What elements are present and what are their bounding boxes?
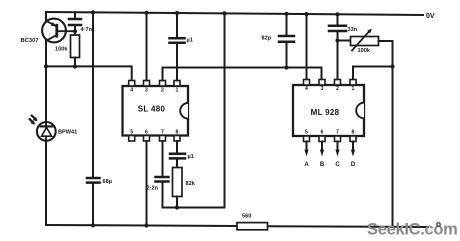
wire pin3 to rail	[146, 13, 148, 81]
svg-text:SeekIC.com: SeekIC.com	[367, 221, 458, 239]
pin numbers SL480 bottom	[130, 130, 178, 136]
svg-text:BPW41: BPW41	[58, 130, 77, 136]
capacitor C5 u1 pin8	[170, 141, 185, 168]
svg-text:0V: 0V	[426, 13, 435, 20]
svg-text:7: 7	[336, 130, 339, 136]
wire pin4 horizontal	[46, 66, 132, 81]
capacitor C2 68u	[87, 12, 100, 225]
svg-text:D: D	[351, 162, 356, 168]
wire bottom rail right	[268, 225, 429, 228]
wire feedback bottom horizontal	[163, 207, 225, 209]
node pin3 rail	[144, 11, 148, 15]
svg-text:1: 1	[176, 88, 179, 94]
output arrow B	[320, 142, 324, 157]
svg-text:7: 7	[161, 130, 164, 136]
capacitor C4 2.2n	[156, 141, 169, 208]
pin stubs SL480 bottom	[129, 136, 180, 142]
wire pot to ML pin1	[353, 67, 393, 80]
node 33n pot junction	[335, 38, 339, 42]
svg-text:68µ: 68µ	[103, 179, 112, 185]
svg-text:3: 3	[321, 86, 324, 92]
node 82p bus	[284, 65, 288, 69]
svg-text:B: B	[320, 162, 325, 168]
capacitor C3 u1 top	[170, 13, 185, 81]
svg-text:4: 4	[305, 86, 308, 92]
node ML pin4 rail	[304, 12, 308, 16]
node 68u top rail	[91, 10, 95, 14]
wire ML pin4 to rail	[306, 14, 308, 79]
pin numbers ML928 bottom	[305, 130, 355, 136]
wire 82k bottom	[176, 197, 178, 208]
node 82k bottom	[175, 205, 179, 209]
capacitor C6 82p	[279, 14, 294, 68]
output arrow D	[351, 142, 355, 157]
pin stubs SL480 top	[129, 81, 180, 87]
node 82p rail	[284, 12, 288, 16]
svg-text:BC307: BC307	[21, 38, 39, 44]
IC U1 SL480	[123, 86, 189, 136]
resistor R4 560	[237, 223, 268, 230]
pin stubs ML928 bottom	[304, 136, 357, 142]
node pot T	[390, 64, 394, 68]
wire pot right down	[379, 41, 393, 67]
watermark superscript mark	[437, 223, 440, 226]
wire left vertical upper	[45, 12, 47, 21]
svg-text:8: 8	[176, 130, 179, 136]
wire right vertical to bottom rail	[392, 67, 394, 227]
svg-text:100k: 100k	[358, 48, 371, 54]
node 33n rail	[335, 12, 339, 16]
pin numbers SL480 top	[130, 88, 178, 94]
wire long vertical feedback	[224, 13, 226, 207]
svg-text:4: 4	[130, 88, 133, 94]
svg-text:4·7n: 4·7n	[81, 27, 93, 33]
wire pin6 to bottom rail	[146, 141, 148, 226]
wire top rail 0V	[46, 12, 423, 15]
svg-text:82p: 82p	[262, 36, 272, 42]
capacitor C7 33n	[329, 14, 346, 79]
photodiode D1 BPW41	[37, 122, 56, 141]
wire left vertical lower	[45, 141, 47, 225]
svg-text:C: C	[335, 162, 340, 168]
light arrow 1	[32, 116, 38, 122]
resistor R1 100k	[71, 35, 80, 58]
svg-text:A: A	[304, 162, 309, 168]
svg-text:82k: 82k	[186, 181, 196, 187]
svg-text:6: 6	[145, 130, 148, 136]
svg-text:µ1: µ1	[187, 38, 193, 44]
svg-text:6: 6	[321, 130, 324, 136]
wire bottom rail left	[46, 225, 237, 226]
node base junction	[73, 29, 77, 33]
svg-text:8: 8	[352, 130, 355, 136]
svg-text:2: 2	[161, 88, 164, 94]
svg-text:5: 5	[305, 130, 308, 136]
svg-text:SL 480: SL 480	[138, 105, 166, 114]
svg-text:5: 5	[130, 130, 133, 136]
output arrow A	[304, 142, 308, 157]
pin stubs ML928 top	[304, 80, 357, 86]
node 68u bottom rail	[91, 223, 95, 227]
svg-text:2: 2	[336, 86, 339, 92]
svg-text:2·2n: 2·2n	[147, 186, 159, 192]
node R1-bus	[73, 64, 77, 68]
node pin6 bottom rail	[144, 223, 148, 227]
potentiometer R3 100k	[338, 29, 379, 51]
wire left vertical mid	[45, 41, 47, 123]
wire R1 bottom	[74, 58, 76, 67]
node feedback rail	[222, 11, 226, 15]
output arrow C	[335, 142, 339, 157]
svg-text:560: 560	[242, 214, 251, 220]
transistor Q1 BC307	[42, 19, 75, 43]
svg-text:1: 1	[352, 86, 355, 92]
svg-text:ML 928: ML 928	[311, 108, 340, 117]
node u1 rail	[175, 11, 179, 15]
light arrow 2	[30, 119, 35, 124]
node left-T	[44, 64, 48, 68]
svg-text:100k: 100k	[55, 47, 68, 53]
IC U2 ML928	[293, 85, 364, 136]
resistor R2 82k	[173, 168, 183, 197]
capacitor C1 4.7n	[69, 12, 81, 35]
svg-text:µ1: µ1	[188, 154, 194, 160]
wire pin2 bus	[163, 68, 322, 81]
pin numbers ML928 top	[305, 86, 355, 92]
svg-text:3: 3	[145, 88, 148, 94]
svg-text:33n: 33n	[348, 27, 358, 33]
